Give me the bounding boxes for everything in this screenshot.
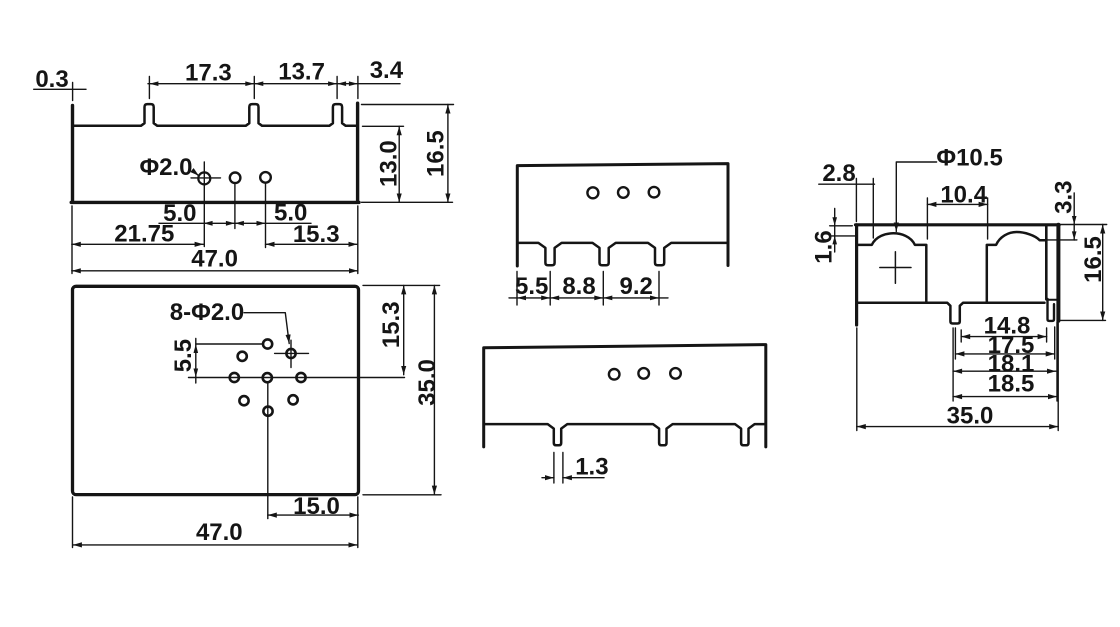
svg-text:47.0: 47.0	[191, 246, 238, 273]
8-phi2.0 leader	[244, 313, 289, 344]
bottom view hole pattern (8 x phi2.0 + center)	[230, 339, 306, 415]
svg-text:35.0: 35.0	[947, 403, 994, 430]
svg-text:3.4: 3.4	[370, 57, 404, 84]
svg-text:17.3: 17.3	[185, 60, 232, 87]
svg-text:13.0: 13.0	[375, 140, 402, 187]
dim 3.3	[1041, 193, 1077, 240]
dim 1.6	[830, 209, 857, 253]
dim 0.3	[34, 83, 86, 101]
side view 2 bottom profile with 3 thin pins	[485, 424, 764, 445]
svg-text:5.5: 5.5	[515, 273, 548, 300]
side view 2 holes	[609, 368, 681, 380]
bottom view construction lines	[189, 344, 405, 519]
phi10.5 leader	[896, 162, 936, 232]
end view inner right wall	[1045, 226, 1048, 300]
top dim line 17.3 / 13.7 / 3.4	[148, 77, 400, 99]
svg-text:Φ10.5: Φ10.5	[936, 145, 1002, 172]
dim 5.5 (bottom view)	[195, 339, 197, 384]
svg-text:16.5: 16.5	[422, 130, 449, 177]
svg-text:10.4: 10.4	[940, 181, 987, 208]
5.0 arrowheads	[204, 221, 266, 226]
svg-text:15.0: 15.0	[293, 493, 340, 520]
phi2.0 leader	[193, 171, 199, 176]
front view hole 1 (datum with cross)	[198, 172, 210, 184]
front view outer walls	[71, 103, 359, 202]
side view 1 dims 5.5 / 8.8 / 9.2	[509, 272, 668, 306]
end view right outer wall	[1056, 225, 1060, 321]
end view bottom dims 14.8 / 17.5 / 18.1 / 18.5 / 35.0	[857, 322, 1058, 431]
svg-text:9.2: 9.2	[620, 273, 653, 300]
dim 2.8	[819, 179, 875, 239]
side view 1 holes	[587, 187, 659, 198]
right side dims 13.0 / 16.5	[362, 105, 454, 203]
end view right pin	[1048, 299, 1055, 321]
svg-text:18.5: 18.5	[988, 370, 1035, 397]
front view top surface with three notches	[74, 104, 356, 126]
side view 1 outline	[517, 164, 728, 266]
svg-text:15.3: 15.3	[378, 301, 405, 348]
svg-text:3.3: 3.3	[1051, 181, 1078, 214]
svg-text:16.5: 16.5	[1080, 236, 1107, 283]
front view hole 3	[260, 172, 271, 183]
svg-text:5.5: 5.5	[170, 339, 197, 372]
bottom dims of bottom view: 15.0 / 47.0	[73, 497, 359, 548]
svg-text:47.0: 47.0	[196, 519, 243, 546]
end view datum cross	[880, 252, 911, 283]
front view hole 2	[230, 173, 241, 184]
datum cross lines	[191, 162, 221, 247]
svg-text:8-Φ2.0: 8-Φ2.0	[170, 299, 244, 326]
svg-text:1.6: 1.6	[811, 230, 838, 263]
cross on leader hole	[275, 340, 309, 367]
side view 2 outline	[484, 345, 766, 447]
dim 16.5 (end view)	[1058, 225, 1107, 321]
svg-text:15.3: 15.3	[293, 221, 340, 248]
svg-text:8.8: 8.8	[562, 273, 595, 300]
dim 10.4	[927, 198, 987, 239]
right dims of bottom view: 15.3 / 35.0	[363, 285, 441, 494]
svg-text:Φ2.0: Φ2.0	[139, 154, 192, 181]
svg-text:13.7: 13.7	[278, 58, 325, 85]
svg-text:35.0: 35.0	[414, 359, 441, 406]
dim 1.3	[542, 453, 604, 484]
side view 1 bottom profile with 3 pins	[519, 243, 727, 265]
end view cavity profile with two domes	[858, 232, 1044, 324]
svg-text:1.3: 1.3	[575, 454, 608, 481]
svg-text:0.3: 0.3	[35, 66, 68, 93]
bottom view rectangle	[73, 286, 359, 494]
bottom dims of front view: 5.0 5.0 21.75 15.3 47.0	[72, 184, 358, 274]
svg-text:21.75: 21.75	[114, 220, 174, 247]
svg-text:2.8: 2.8	[822, 160, 855, 187]
end view outer	[856, 225, 1060, 325]
